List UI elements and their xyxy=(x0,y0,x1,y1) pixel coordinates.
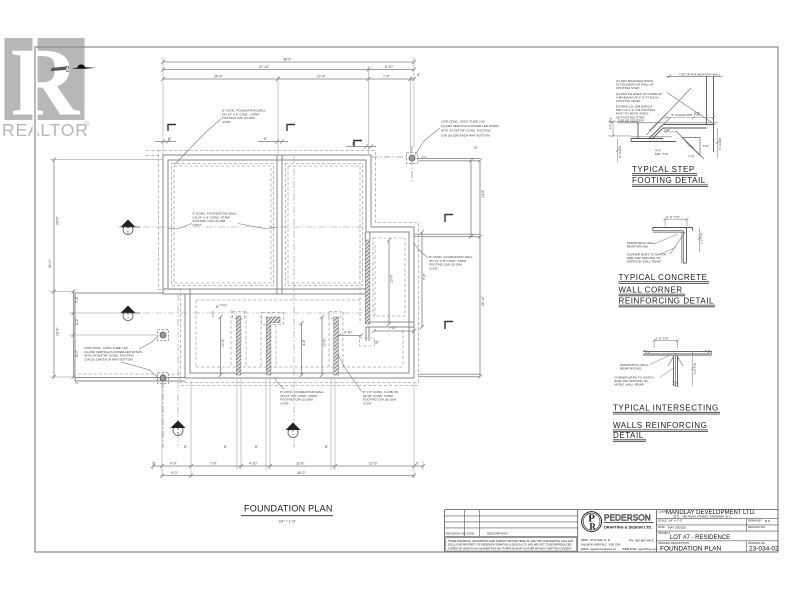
step profile walls xyxy=(631,76,714,152)
svg-text:C/W (5)-15M EACH WAY BOTTOM: C/W (5)-15M EACH WAY BOTTOM xyxy=(84,357,133,361)
svg-text:7'-6": 7'-6" xyxy=(389,326,397,330)
svg-text:(4)-15M VERTICALS DOWELLED DOW: (4)-15M VERTICALS DOWELLED DOWN xyxy=(441,124,499,128)
svg-text:PH: 250-803-0415: PH: 250-803-0415 xyxy=(629,539,654,543)
svg-text:WALL CORNER: WALL CORNER xyxy=(619,286,683,295)
svg-text:11'-8": 11'-8" xyxy=(296,462,305,466)
svg-text:TOP OF FOUNDATION WALL: TOP OF FOUNDATION WALL xyxy=(679,72,721,76)
note N6 sono tube left xyxy=(84,337,157,377)
left dimension line 1 xyxy=(52,158,56,380)
hatched strip wall S2 with top L xyxy=(266,317,280,375)
svg-text:7'-8": 7'-8" xyxy=(210,462,218,466)
svg-text:TYP.: TYP. xyxy=(688,155,695,159)
svg-text:TYPICAL CONCRETE: TYPICAL CONCRETE xyxy=(619,273,708,282)
svg-text:2'-0" TYP.: 2'-0" TYP. xyxy=(700,232,704,244)
detail 3: intersecting walls xyxy=(613,336,720,441)
bottom dimension row 2 xyxy=(160,474,416,478)
note N4 lower foundation wall xyxy=(274,377,324,405)
svg-text:8" CLEAR: 8" CLEAR xyxy=(718,138,722,150)
inner wall face xyxy=(168,160,409,373)
section marker B xyxy=(171,294,186,446)
svg-text:10'-6": 10'-6" xyxy=(323,338,327,347)
top dimension row 1 xyxy=(161,60,416,64)
svg-text:EXCLUSIVE PROPERTY OF PEDERSON: EXCLUSIVE PROPERTY OF PEDERSON DRAFTING … xyxy=(448,544,572,547)
svg-text:17'-4": 17'-4" xyxy=(317,75,326,79)
svg-text:1/4" = 1'-0": 1/4" = 1'-0" xyxy=(668,519,683,523)
svg-text:4'-9": 4'-9" xyxy=(170,462,178,466)
svg-text:8'-10": 8'-10" xyxy=(385,65,394,69)
section marker A xyxy=(118,220,366,235)
slope triangle xyxy=(676,131,704,159)
svg-text:8'-2": 8'-2" xyxy=(75,317,79,325)
svg-text:REALTOR: REALTOR xyxy=(2,120,89,140)
svg-text:WALLS REINFORCING: WALLS REINFORCING xyxy=(613,421,707,430)
svg-text:7'-4": 7'-4" xyxy=(383,75,391,79)
sheet border xyxy=(35,47,778,552)
svg-text:40'-0": 40'-0" xyxy=(48,259,52,268)
dash-dot reference lines xyxy=(163,146,427,448)
svg-text:TYP.: TYP. xyxy=(703,144,710,148)
svg-text:4'-10": 4'-10" xyxy=(344,331,353,335)
svg-text:2: 2 xyxy=(66,64,70,74)
footing dashed lines xyxy=(78,151,419,386)
foundation plan line work xyxy=(75,155,414,381)
hatched strip wall S1 xyxy=(236,316,241,375)
svg-text:24'-6": 24'-6" xyxy=(56,216,60,225)
svg-text:CONT.: CONT. xyxy=(363,401,372,405)
svg-text:FOUNDATION PLAN: FOUNDATION PLAN xyxy=(660,545,722,552)
svg-text:SALMON ARM B.C. V1E 2S4: SALMON ARM B.C. V1E 2S4 xyxy=(581,543,621,547)
detail 2: concrete wall corner xyxy=(619,215,716,307)
note N3 right foundation wall xyxy=(414,243,473,270)
svg-text:2'-0" TYP.: 2'-0" TYP. xyxy=(656,336,670,340)
interior wall vertical (big room right) xyxy=(277,155,282,294)
svg-text:FOOTING LEVEL.: FOOTING LEVEL. xyxy=(616,99,642,103)
svg-text:4'-4": 4'-4" xyxy=(302,338,306,346)
svg-text:9': 9' xyxy=(153,462,156,466)
svg-text:7'-6": 7'-6" xyxy=(423,272,427,280)
svg-text:10'-6": 10'-6" xyxy=(221,338,225,347)
right room bottom wall xyxy=(366,322,414,327)
outer wall face xyxy=(163,155,414,378)
detail 1: typical step footing xyxy=(608,72,723,186)
svg-text:®: ® xyxy=(84,120,90,128)
note N7 sono tube top right xyxy=(415,120,499,156)
svg-text:9'-0": 9'-0" xyxy=(171,471,179,475)
svg-text:MIN. TYP.: MIN. TYP. xyxy=(655,152,669,156)
sono tube left lower xyxy=(158,373,169,384)
svg-text:MAY 29/2023: MAY 29/2023 xyxy=(668,525,686,529)
svg-text:CONT.: CONT. xyxy=(222,120,231,124)
svg-text:DRAWN BY: DRAWN BY xyxy=(748,518,762,522)
svg-text:4'-10": 4'-10" xyxy=(249,462,258,466)
svg-text:REINFORCING DETAIL: REINFORCING DETAIL xyxy=(619,297,715,306)
right dimension line xyxy=(469,159,482,379)
top dimension row 3 xyxy=(161,77,416,81)
big room bottom wall xyxy=(163,289,366,294)
svg-text:TYPICAL INTERSECTING: TYPICAL INTERSECTING xyxy=(613,404,719,413)
svg-text:9': 9' xyxy=(416,462,419,466)
pederson logo xyxy=(582,512,602,532)
svg-text:SCALE: SCALE xyxy=(658,518,667,522)
svg-text:WEB SITE: ngdrafting.com: WEB SITE: ngdrafting.com xyxy=(622,547,658,551)
revision table xyxy=(445,510,578,551)
svg-text:8'-0": 8'-0" xyxy=(75,349,79,357)
hatched strip wall S3 xyxy=(334,317,339,375)
note N5 concrete curb xyxy=(338,355,398,405)
svg-text:REINFORCING: REINFORCING xyxy=(627,245,649,249)
bird dart mark xyxy=(51,64,96,74)
svg-text:6: 6 xyxy=(177,432,179,436)
svg-text:CONT.: CONT. xyxy=(193,223,202,227)
svg-text:REINFORCING: REINFORCING xyxy=(620,367,642,371)
svg-text:REVISION NO.: REVISION NO. xyxy=(748,525,766,529)
svg-text:HORIZON. WALL REINF.: HORIZON. WALL REINF. xyxy=(627,260,662,264)
svg-text:THESE DRAWINGS, INFORMATION AN: THESE DRAWINGS, INFORMATION AND SUBJECT … xyxy=(448,540,573,543)
svg-text:7'-4": 7'-4" xyxy=(75,295,79,303)
note N1 top foundation wall xyxy=(175,109,266,165)
S4 stem wall xyxy=(365,232,370,341)
svg-text:PROJECT: PROJECT xyxy=(658,531,671,535)
svg-text:4'-0" MAX.: 4'-0" MAX. xyxy=(609,117,613,130)
svg-text:7: 7 xyxy=(127,317,129,321)
top dimension row 2 xyxy=(161,68,416,72)
title block outer and panels xyxy=(445,510,778,552)
sono tube left upper xyxy=(158,330,169,341)
svg-text:7: 7 xyxy=(292,434,294,438)
svg-text:16": 16" xyxy=(374,341,380,345)
svg-text:4'-0": 4'-0" xyxy=(694,111,700,115)
carport slab outline xyxy=(75,293,185,381)
svg-text:FOOTING DETAIL: FOOTING DETAIL xyxy=(632,176,706,185)
svg-text:LOT #7 - RESIDENCE: LOT #7 - RESIDENCE xyxy=(670,535,730,541)
svg-text:2'-0" TYP.: 2'-0" TYP. xyxy=(693,362,697,374)
svg-text:DRAFTING & DESIGN LTD.: DRAFTING & DESIGN LTD. xyxy=(604,526,652,530)
svg-text:37'-10": 37'-10" xyxy=(259,65,270,69)
svg-text:FOOTING STEP.: FOOTING STEP. xyxy=(616,86,640,90)
svg-text:2'-0" TYP.: 2'-0" TYP. xyxy=(667,215,681,219)
sono tube top right xyxy=(407,153,418,164)
section marker C xyxy=(118,306,366,321)
svg-text:HORIZ. WALL REINF.: HORIZ. WALL REINF. xyxy=(614,383,644,387)
title block xyxy=(445,510,779,553)
svg-text:10"Ø CONC. SONO TUBE C/W: 10"Ø CONC. SONO TUBE C/W xyxy=(441,120,485,124)
svg-text:26'-10": 26'-10" xyxy=(481,295,485,306)
svg-text:8" CLEAR: 8" CLEAR xyxy=(618,146,622,158)
svg-text:TYPICAL STEP: TYPICAL STEP xyxy=(632,165,695,174)
foundation plan main title xyxy=(241,504,333,524)
svg-text:1/4" = 1'-0": 1/4" = 1'-0" xyxy=(278,520,296,524)
svg-text:6: 6 xyxy=(127,231,129,235)
dimension extension lines xyxy=(50,57,423,478)
svg-text:DATE: DATE xyxy=(658,525,665,529)
svg-text:DATE: DATE xyxy=(467,532,475,536)
right wall edge extensions xyxy=(414,159,480,377)
svg-text:2680 - 9TH AVE. N. E.: 2680 - 9TH AVE. N. E. xyxy=(581,538,611,542)
svg-text:C/W (5)-15M EACH WAY BOTTOM: C/W (5)-15M EACH WAY BOTTOM xyxy=(441,133,490,137)
svg-text:DRAWING NO.: DRAWING NO. xyxy=(748,541,766,545)
dims of detail 1 xyxy=(608,116,719,162)
svg-text:14'-6": 14'-6" xyxy=(481,189,485,198)
hatched strip wall S4 xyxy=(365,240,370,324)
rebar diagonals xyxy=(631,88,718,137)
svg-text:48'-0": 48'-0" xyxy=(283,58,292,62)
svg-text:REVISION NO.: REVISION NO. xyxy=(446,532,467,536)
svg-text:PEDERSON: PEDERSON xyxy=(604,514,651,523)
svg-text:EMAIL: ngpederson@telus.net: EMAIL: ngpederson@telus.net xyxy=(581,547,617,551)
svg-text:40'-0": 40'-0" xyxy=(297,471,306,475)
section marker D xyxy=(286,156,301,448)
REALTOR watermark block xyxy=(2,28,90,140)
left dimension line 2 xyxy=(72,290,76,380)
svg-text:COPIED OR USED IN ANY MANNER F: COPIED OR USED IN ANY MANNER FOR ANY PUR… xyxy=(448,547,572,550)
note N2 big room wall xyxy=(168,212,278,230)
svg-text:CONT.: CONT. xyxy=(429,266,438,270)
svg-text:INTO 24"X24"X8" CONC. FOOTING: INTO 24"X24"X8" CONC. FOOTING xyxy=(441,129,492,133)
svg-text:FOUNDATION PLAN: FOUNDATION PLAN xyxy=(244,504,333,514)
svg-text:16'-6": 16'-6" xyxy=(56,327,60,336)
svg-text:CONT.: CONT. xyxy=(280,401,289,405)
svg-text:20'-4": 20'-4" xyxy=(214,75,223,79)
interior dimension lines xyxy=(155,140,424,378)
client project grid xyxy=(657,518,779,552)
svg-text:2': 2' xyxy=(75,381,79,384)
svg-text:10'-6": 10'-6" xyxy=(390,274,394,283)
svg-text:B.P.: B.P. xyxy=(765,519,770,523)
svg-text:2'-0": 2'-0" xyxy=(664,128,670,132)
step symbols along walls xyxy=(168,125,453,330)
svg-text:23-034-02: 23-034-02 xyxy=(749,545,779,552)
bottom dimension row 1 xyxy=(151,464,425,468)
svg-text:12'-9": 12'-9" xyxy=(369,462,378,466)
svg-text:DETAIL: DETAIL xyxy=(613,431,644,440)
svg-text:R: R xyxy=(589,522,596,532)
svg-text:DRAWING DESCRIPTION: DRAWING DESCRIPTION xyxy=(658,541,689,545)
svg-text:DESCRIPTION: DESCRIPTION xyxy=(487,532,508,536)
